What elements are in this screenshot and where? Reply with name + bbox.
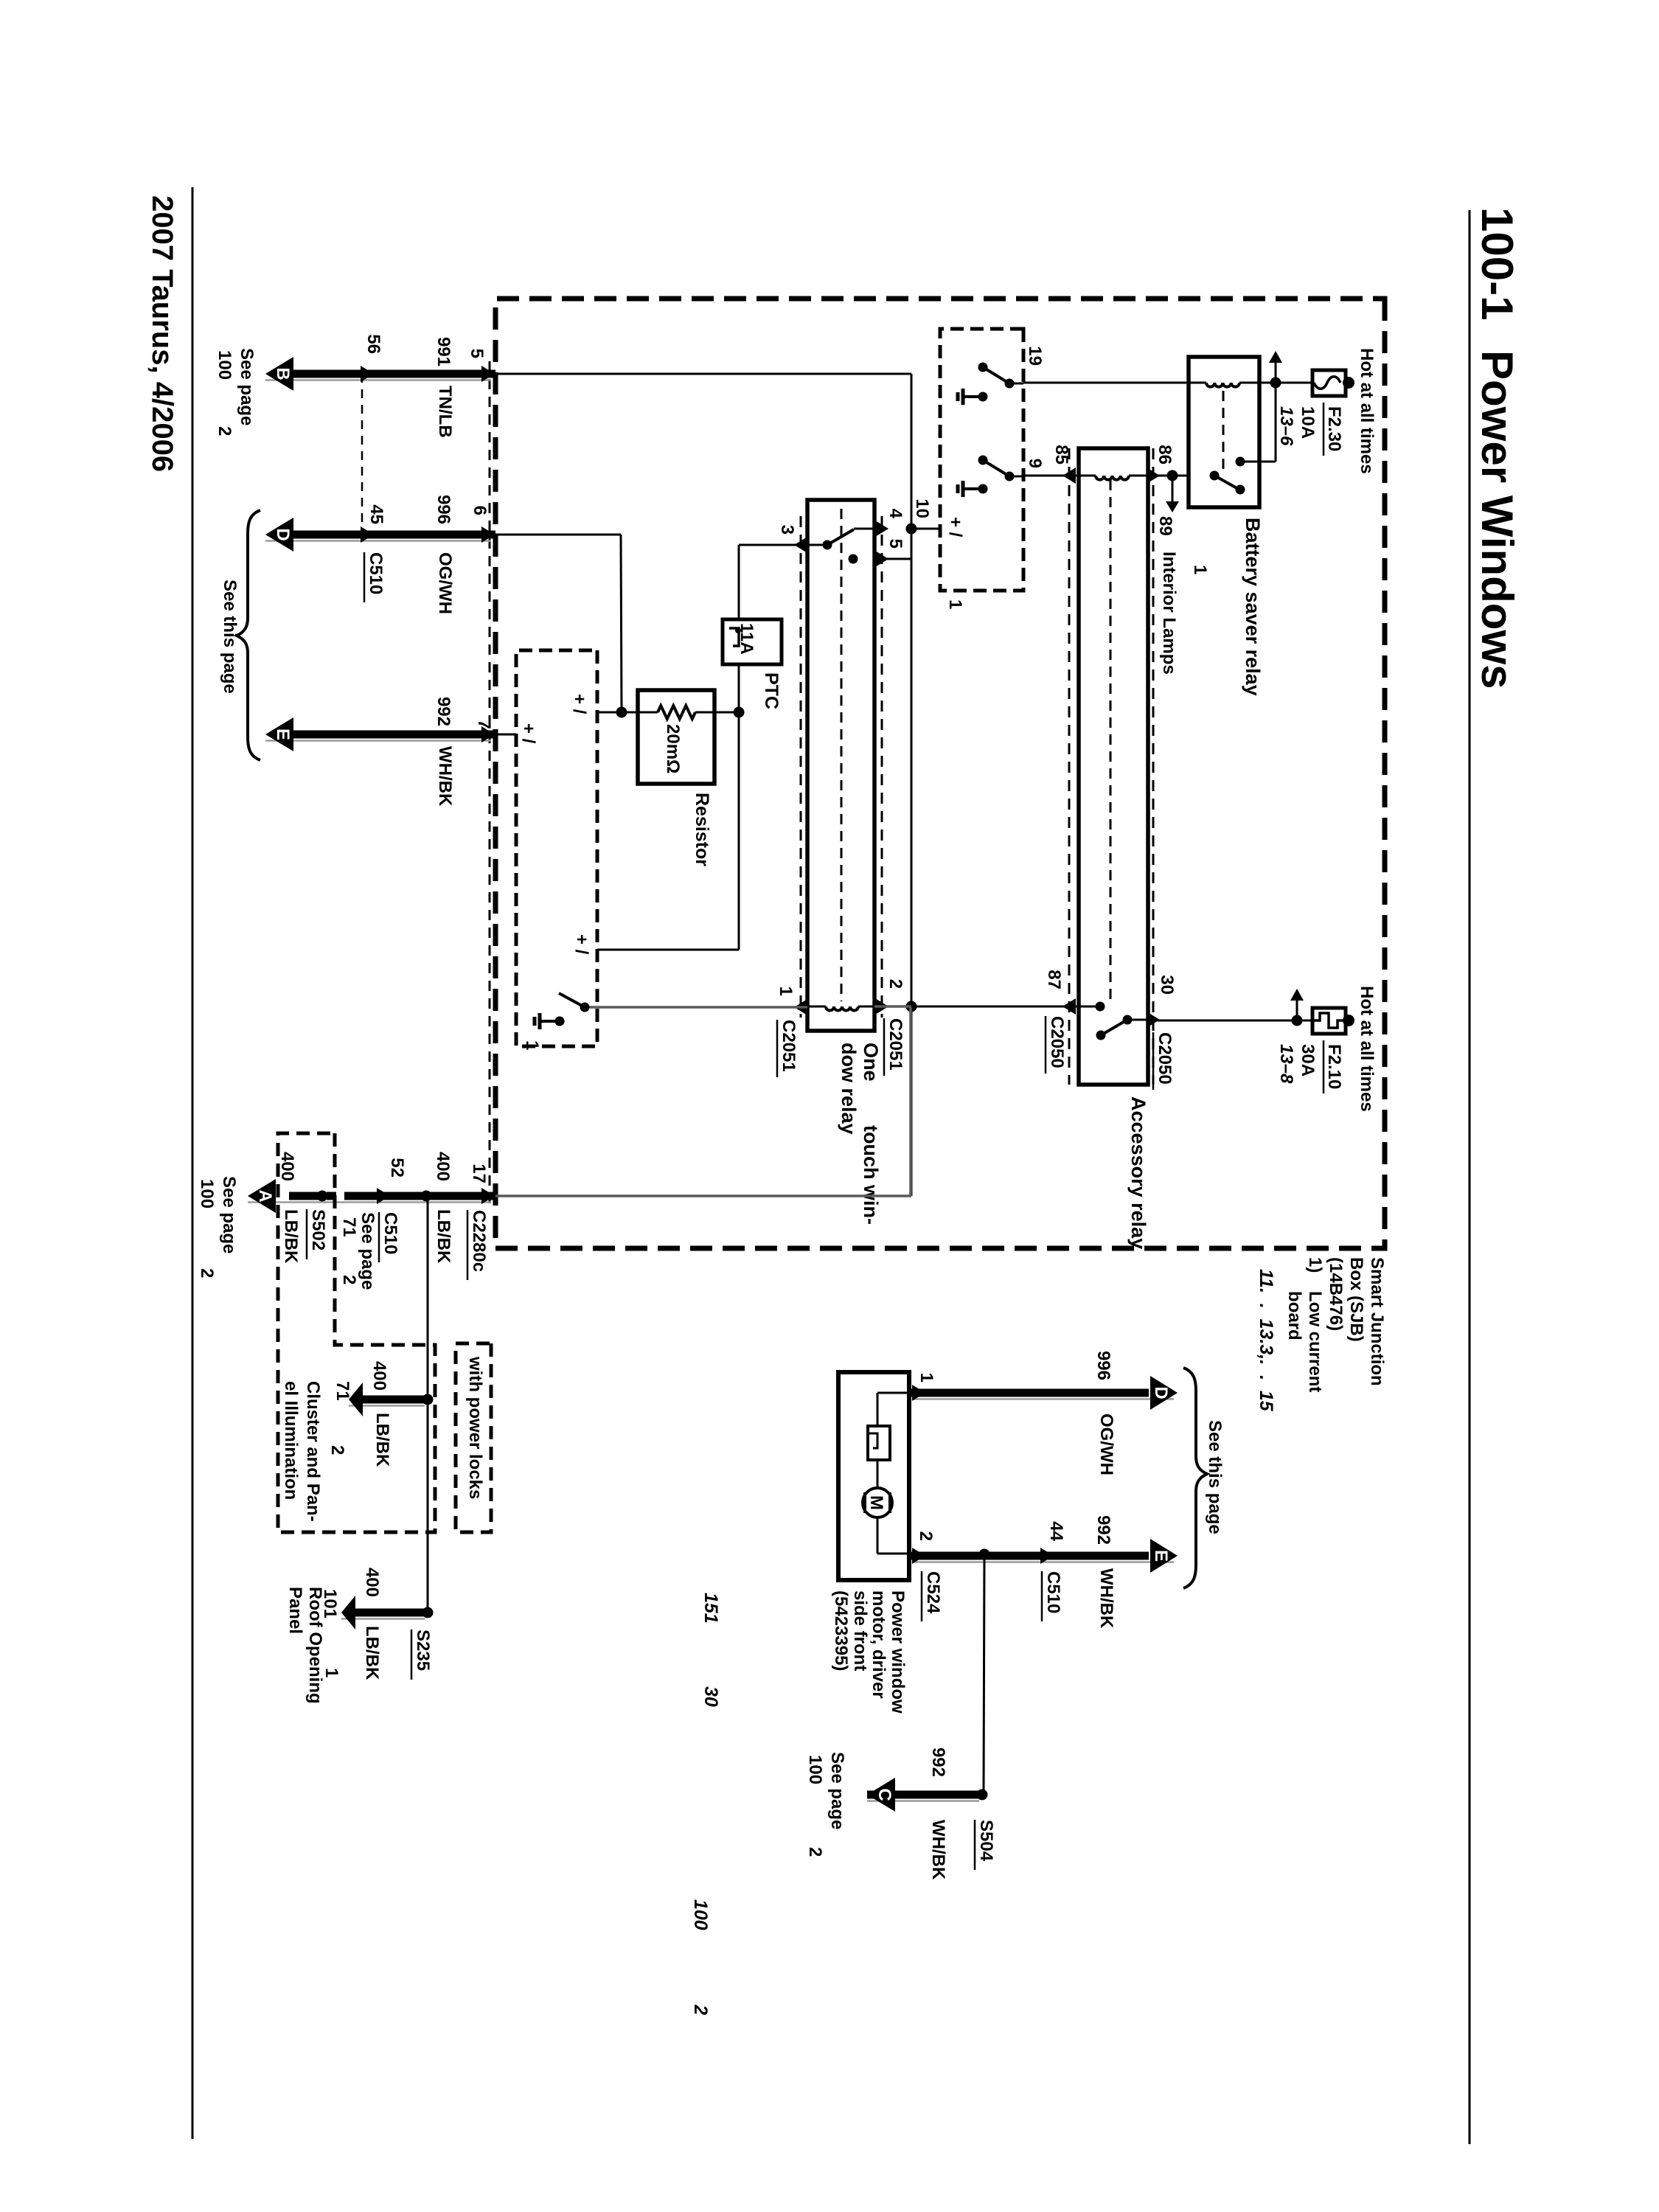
svg-text:F2.10: F2.10 [1324, 1044, 1344, 1089]
svg-text:400: 400 [433, 1152, 453, 1181]
wire A drop [248, 1201, 491, 1203]
svg-text:OG/WH: OG/WH [435, 552, 455, 614]
svg-text:WH/BK: WH/BK [435, 746, 455, 807]
svg-text:44: 44 [1046, 1521, 1066, 1541]
pin 30 marker [1147, 1012, 1160, 1028]
svg-text:71: 71 [339, 1217, 359, 1237]
svg-text:992: 992 [928, 1747, 948, 1777]
svg-text:2: 2 [339, 1275, 359, 1284]
wire WH/BK drop [265, 740, 491, 742]
relay actuation dashed [841, 509, 843, 1001]
window safety switch dashed box [940, 329, 1023, 591]
arrow C [867, 1778, 895, 1812]
svg-text:56: 56 [364, 334, 383, 354]
svg-text:10A: 10A [1298, 406, 1318, 439]
svg-text:Cluster and Pan-: Cluster and Pan- [303, 1381, 323, 1522]
svg-text:2: 2 [805, 1847, 825, 1857]
pin 3 wire to PTC [739, 544, 807, 546]
wire B+ bus [911, 374, 913, 1196]
ground 2 [978, 484, 988, 494]
svg-text:86: 86 [1155, 445, 1175, 465]
pin 85 marker [1062, 467, 1076, 484]
svg-text:992: 992 [1093, 1515, 1113, 1545]
svg-text:85: 85 [1051, 445, 1071, 465]
motor pin 1 wire to arrow D [913, 1398, 1174, 1400]
svg-text:89: 89 [1155, 516, 1175, 536]
wire OG/WH drop [265, 540, 491, 542]
svg-text:Panel: Panel [285, 1587, 305, 1634]
pin 4 marker [875, 521, 888, 537]
svg-text:2: 2 [886, 979, 905, 989]
svg-text:TN/LB: TN/LB [435, 386, 455, 438]
svg-text:D: D [273, 528, 293, 540]
svg-text:B: B [273, 367, 293, 380]
battery saver actuation dashed [1222, 391, 1225, 472]
motor circuit breaker [868, 1426, 890, 1460]
wire corner to driver +/ (c) [597, 949, 739, 951]
svg-text:2: 2 [690, 2004, 711, 2015]
svg-text:11. . 13.3,. . 15: 11. . 13.3,. . 15 [1256, 1269, 1276, 1412]
svg-text:1: 1 [1190, 565, 1210, 574]
C2051 connector dashed lines [881, 516, 883, 1018]
svg-text:100-1: 100-1 [1472, 207, 1522, 320]
switch 1 (pin 19) [1009, 383, 1023, 385]
Smart Junction Box (SJB) dashed outline [495, 299, 1385, 1248]
junction S504 tap [979, 1549, 990, 1560]
driver switch ground [555, 1017, 565, 1026]
motor pin 2 wire to arrow E [913, 1561, 1174, 1563]
svg-text:17: 17 [469, 1164, 489, 1183]
svg-text:D: D [1151, 1386, 1171, 1399]
driver window switch dashed box (C2280c) [516, 650, 597, 1046]
svg-text:2: 2 [327, 1445, 347, 1455]
svg-text:LB/BK: LB/BK [362, 1626, 382, 1680]
wire pin1 to driver switch [585, 1006, 807, 1009]
svg-text:+ /: + / [569, 694, 589, 714]
svg-text:Power window: Power window [888, 1590, 908, 1714]
svg-text:PTC: PTC [761, 672, 782, 709]
junction to tap line [421, 1191, 432, 1202]
brace see this page (motor) [1183, 1368, 1207, 1588]
svg-text:(14B476): (14B476) [1326, 1257, 1346, 1331]
svg-text:10: 10 [912, 498, 932, 518]
svg-text:Battery saver relay: Battery saver relay [1242, 518, 1264, 696]
svg-text:4: 4 [886, 509, 905, 519]
junction resistor bottom [616, 707, 627, 718]
accessory relay box [1079, 448, 1148, 1085]
S502 dashed box + cluster dashed box (L shape) [278, 1133, 435, 1532]
svg-text:C2050: C2050 [1047, 1016, 1067, 1068]
one touch window relay box [807, 500, 874, 1031]
svg-text:Hot at all times: Hot at all times [1357, 348, 1377, 474]
switch 2 (pin 9) [1009, 476, 1023, 478]
wire pin3 to PTC [738, 545, 740, 619]
svg-text:S504: S504 [976, 1820, 996, 1862]
wire TN/LB drop [265, 379, 491, 381]
svg-text:996: 996 [434, 495, 453, 524]
svg-text:See page: See page [219, 1176, 239, 1253]
svg-text:100: 100 [690, 1899, 711, 1930]
C510 crossing on motor E wire [1040, 1548, 1054, 1564]
svg-text:13–8: 13–8 [1276, 1044, 1296, 1084]
motor M [863, 1488, 892, 1517]
svg-text:C524: C524 [923, 1571, 943, 1614]
svg-text:LB/BK: LB/BK [434, 1209, 453, 1264]
svg-text:with power locks: with power locks [465, 1356, 485, 1499]
pin 2 marker [875, 998, 888, 1015]
svg-text:400: 400 [277, 1152, 297, 1181]
junction 86 / interior lamps [1167, 470, 1178, 481]
pin marker at SJB edge [481, 366, 495, 382]
with power locks dashed box [456, 1343, 491, 1532]
svg-text:992: 992 [434, 697, 453, 726]
svg-text:C2051: C2051 [779, 1020, 799, 1072]
pin 86 marker [1147, 467, 1160, 484]
fuse F2.30 [1343, 377, 1354, 389]
svg-text:LB/BK: LB/BK [372, 1413, 392, 1467]
svg-text:100: 100 [215, 350, 234, 380]
svg-text:See page: See page [827, 1752, 847, 1829]
svg-text:S235: S235 [413, 1630, 433, 1671]
battery saver relay box [1189, 357, 1259, 507]
page ref arrow 13-8 [1296, 1001, 1298, 1020]
svg-text:Accessory relay: Accessory relay [1127, 1096, 1150, 1249]
svg-text:M: M [866, 1495, 886, 1510]
arrow D [265, 518, 293, 552]
PTC box [723, 619, 782, 664]
power window motor box [838, 1372, 909, 1580]
svg-text:board: board [1284, 1291, 1304, 1340]
svg-text:motor, driver: motor, driver [869, 1590, 888, 1699]
pin marker at SJB edge [481, 526, 495, 543]
footer rule [192, 187, 194, 2139]
svg-text:30A: 30A [1298, 1044, 1318, 1077]
wire E stub into box [495, 734, 516, 736]
svg-text:One: One [860, 1043, 882, 1082]
svg-text:+ /: + / [945, 517, 965, 538]
wire one-touch pin5 riser [874, 558, 911, 560]
svg-text:dow relay: dow relay [838, 1043, 860, 1135]
C2050 connector dashed lines [1152, 448, 1155, 1085]
accessory relay coil wire pin85-86 [1023, 475, 1096, 477]
svg-text:C510: C510 [1043, 1571, 1063, 1613]
svg-text:2007 Taurus, 4/2006: 2007 Taurus, 4/2006 [146, 195, 178, 472]
cluster branch wire [349, 1405, 425, 1407]
svg-text:87: 87 [1044, 970, 1064, 990]
resistor element [695, 712, 739, 714]
svg-text:1: 1 [522, 1040, 542, 1050]
wire pin2 to junction / acc87 [874, 1005, 911, 1008]
wire D riser and link [495, 534, 621, 536]
svg-text:7: 7 [474, 720, 494, 729]
svg-text:71: 71 [333, 1381, 352, 1401]
arrow B [265, 357, 293, 391]
svg-text:See this page: See this page [1205, 1420, 1225, 1534]
wire F2.10 to accessory relay pin 30 [1147, 1020, 1297, 1022]
svg-text:6: 6 [470, 506, 490, 515]
svg-text:Hot at all times: Hot at all times [1357, 986, 1377, 1112]
svg-text:See page: See page [358, 1212, 378, 1290]
svg-text:52: 52 [387, 1158, 407, 1178]
pin 87 marker [1062, 998, 1076, 1015]
wire bus corner to C2280c pin 17 [495, 1194, 911, 1197]
wire B riser inside SJB [495, 373, 911, 375]
svg-text:side front: side front [850, 1590, 870, 1671]
fuse F2.10 [1343, 1015, 1354, 1026]
svg-text:OG/WH: OG/WH [1096, 1413, 1116, 1475]
pin 10 wire [911, 528, 940, 530]
svg-text:C2280c: C2280c [469, 1210, 489, 1272]
C510 crossing on A [377, 1188, 390, 1204]
svg-text:20mΩ: 20mΩ [663, 724, 683, 773]
resistor box [638, 690, 714, 784]
svg-text:1): 1) [1305, 1257, 1325, 1273]
pin marker at SJB edge [481, 726, 495, 742]
wire S504 link [984, 1554, 984, 1795]
svg-text:S502: S502 [308, 1209, 328, 1251]
svg-text:151: 151 [700, 1593, 721, 1624]
svg-text:C510: C510 [366, 552, 386, 594]
svg-text:el Illumination: el Illumination [281, 1381, 301, 1500]
svg-text:13–6: 13–6 [1276, 406, 1296, 446]
pin 1 marker [794, 999, 807, 1015]
svg-text:400: 400 [369, 1361, 389, 1391]
svg-text:(5423395): (5423395) [831, 1590, 851, 1671]
page ref arrow 13-6 [1275, 363, 1277, 383]
svg-text:LB/BK: LB/BK [281, 1209, 301, 1264]
svg-text:400: 400 [362, 1568, 382, 1597]
svg-text:19: 19 [1025, 346, 1045, 366]
svg-text:+ /: + / [518, 723, 538, 744]
svg-text:30: 30 [700, 1686, 721, 1707]
battery saver switch [1210, 471, 1220, 481]
svg-text:991: 991 [434, 337, 453, 366]
svg-text:Power Windows: Power Windows [1472, 350, 1522, 689]
accessory relay switch [1127, 1019, 1147, 1021]
pin 3 marker [794, 537, 807, 553]
svg-text:Box (SJB): Box (SJB) [1346, 1257, 1366, 1342]
C2280c connector dashed [489, 361, 491, 1209]
junction dots on bus [906, 524, 917, 535]
svg-text:WH/BK: WH/BK [928, 1820, 948, 1880]
ground 1 [978, 392, 988, 402]
svg-text:C: C [874, 1788, 894, 1801]
svg-text:touch win-: touch win- [860, 1125, 882, 1225]
svg-text:C2050: C2050 [1155, 1032, 1175, 1085]
svg-text:Smart Junction: Smart Junction [1367, 1257, 1387, 1386]
svg-text:C510: C510 [380, 1212, 400, 1254]
svg-text:See this page: See this page [220, 580, 240, 694]
battery saver coil wire [1239, 382, 1276, 384]
svg-text:2: 2 [215, 426, 234, 436]
motor internal wiring [877, 1392, 909, 1394]
splice S504 [977, 1790, 988, 1801]
PTC element symbol [729, 628, 739, 646]
svg-text:1: 1 [945, 599, 965, 609]
svg-text:Resistor: Resistor [692, 793, 712, 866]
svg-text:Roof Opening: Roof Opening [305, 1587, 325, 1704]
svg-text:C2051: C2051 [886, 1018, 905, 1071]
svg-text:See page: See page [237, 348, 257, 425]
svg-text:WH/BK: WH/BK [1096, 1568, 1116, 1629]
svg-text:9: 9 [1025, 459, 1045, 468]
svg-text:45: 45 [366, 504, 386, 524]
svg-text:2: 2 [197, 1268, 217, 1278]
splice S235 [422, 1607, 434, 1618]
one touch coil on pin1-pin2 wire [858, 1006, 874, 1008]
svg-text:100: 100 [805, 1755, 825, 1784]
relay switch pins 3/4/5 [807, 544, 827, 546]
svg-text:E: E [273, 728, 293, 740]
svg-text:1: 1 [917, 1373, 936, 1382]
splice S502 [317, 1191, 328, 1202]
svg-text:1: 1 [776, 987, 796, 996]
svg-text:Low current: Low current [1305, 1291, 1325, 1392]
svg-text:E: E [1151, 1550, 1171, 1562]
accessory relay actuation dashed [1110, 480, 1112, 1003]
svg-text:100: 100 [197, 1179, 217, 1208]
brace D,E see this page [237, 510, 260, 760]
svg-text:996: 996 [1093, 1351, 1113, 1380]
svg-text:+ /: + / [571, 934, 591, 955]
junction node F2.30 [1270, 378, 1281, 389]
arrow E [265, 717, 293, 751]
svg-text:Interior Lamps: Interior Lamps [1159, 552, 1179, 675]
driver switch [580, 1003, 590, 1012]
svg-text:F2.30: F2.30 [1324, 406, 1344, 451]
wire PTC to resistor/driver [738, 664, 740, 950]
svg-text:3: 3 [777, 525, 797, 535]
cluster branch junction [422, 1394, 434, 1405]
svg-text:30: 30 [1157, 975, 1177, 995]
header rule [1469, 210, 1471, 2144]
C510 in-line connector crossing B and D [361, 366, 374, 382]
arrow A [248, 1179, 276, 1213]
junction node F2.10 [1292, 1015, 1303, 1026]
svg-text:2: 2 [916, 1531, 936, 1541]
svg-text:A: A [255, 1189, 275, 1202]
svg-text:5: 5 [467, 349, 487, 358]
pin 5 marker [875, 551, 888, 567]
svg-text:5: 5 [886, 539, 905, 549]
wire tap line [427, 1196, 429, 1613]
